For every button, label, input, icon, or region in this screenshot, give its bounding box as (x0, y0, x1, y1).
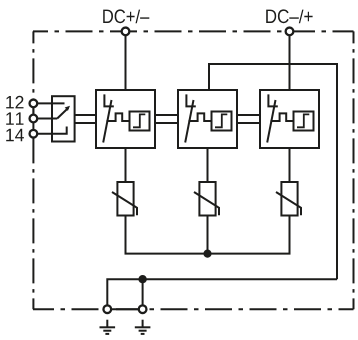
PE wire (107, 279, 337, 305)
wire terminal 14 (37, 127, 67, 134)
label 11 (6, 112, 23, 124)
wire terminal 12 (37, 102, 65, 104)
PE link wire (107, 308, 142, 310)
ground 2 (135, 320, 151, 334)
device boundary bottom (dash-dot) (33, 308, 354, 310)
wire block 3 to varistor 3 (289, 148, 291, 182)
varistor RV2 (194, 182, 219, 216)
device boundary left (dash-dot) (32, 31, 34, 309)
label 12 (6, 96, 23, 109)
wire DC-/+ terminal to block 3 (289, 35, 291, 90)
remote contact box (52, 96, 75, 141)
wire varistor 2 to star point (207, 216, 209, 254)
terminal 11 (30, 115, 38, 123)
varistor RV3 (276, 182, 301, 216)
blade arrowhead (65, 106, 70, 111)
wire block 1 to varistor 1 (125, 148, 127, 182)
device boundary top (dash-dot) (33, 30, 354, 32)
junction PE (138, 275, 146, 283)
changeover blade (57, 108, 68, 119)
label DC+/- (103, 9, 149, 23)
coupling wire block 2 to block 3 (237, 115, 260, 123)
junction star point (203, 250, 211, 258)
wire block 2 to varistor 2 (207, 148, 209, 182)
terminal PE 2 (139, 305, 147, 313)
SPD block U3 (260, 90, 319, 148)
label 14 (6, 129, 24, 141)
wire DC+/- terminal to block 1 (125, 35, 127, 90)
coupling wire block 1 to block 2 (155, 115, 178, 123)
wire terminal column (32, 100, 34, 137)
terminal DC+/- (122, 28, 130, 36)
wire block 2 top to PE rail (209, 64, 337, 279)
wire terminal 11 (37, 118, 58, 120)
varistor RV1 (112, 182, 137, 216)
device boundary right (dash-dot) (353, 31, 355, 309)
SPD block U2 (178, 90, 237, 148)
star point bus (126, 216, 290, 254)
terminal PE 1 (103, 305, 111, 313)
coupling wire contact box to block 1 (75, 115, 96, 123)
terminal DC-/+ (286, 28, 294, 36)
terminal 12 (30, 100, 38, 108)
ground 1 (100, 320, 116, 334)
SPD block U1 (96, 90, 155, 148)
wire junction to PE terminal 2 (142, 279, 144, 305)
terminal 14 (30, 130, 38, 138)
label DC-/+ (266, 9, 312, 23)
